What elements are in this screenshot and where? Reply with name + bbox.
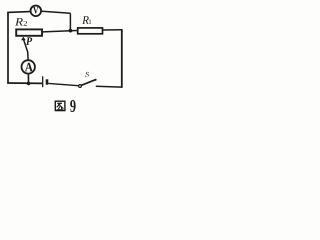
caption figure number 9 [70, 100, 75, 112]
label V in voltmeter [33, 7, 38, 14]
wire right vertical [121, 30, 123, 88]
wire rheostat right to R1 left [43, 31, 77, 32]
label S at switch [85, 72, 89, 77]
wire switch to right corner [96, 85, 122, 88]
wire bottom-left horizontal [7, 82, 42, 84]
label A in ammeter [25, 63, 33, 72]
wire R1 right stub [103, 29, 123, 31]
rheostat R2 box [16, 29, 42, 35]
switch pivot circle [79, 85, 82, 88]
slider wire P to ammeter [24, 39, 29, 59]
label R2 subscript 2 [24, 21, 27, 26]
wire down from top to node [69, 13, 71, 30]
caption hanzi TU (figure) drawn as strokes [55, 101, 65, 110]
battery long plate [42, 76, 44, 87]
ammeter A (meter circle) [22, 60, 35, 73]
wire left vertical [7, 12, 9, 83]
slider arrow head of rheostat [21, 37, 26, 41]
wire top-left horizontal [7, 11, 30, 14]
label P at slider [26, 37, 32, 44]
resistor R1 box [78, 28, 103, 34]
switch S lever [81, 80, 96, 86]
label R1 subscript 1 [89, 19, 91, 24]
node junction dot (ammeter to bottom wire) [27, 82, 31, 86]
voltmeter V (meter circle) [31, 6, 42, 17]
switch lever end dot [95, 79, 97, 81]
wire ammeter bottom stem [27, 74, 29, 83]
label R2 letter R [15, 18, 23, 25]
wire battery to switch [48, 83, 78, 85]
wire voltmeter right to corner [42, 11, 71, 13]
node junction dot (V branch to R2/R1 node) [69, 29, 73, 33]
label R1 letter R [82, 16, 89, 24]
battery short plate [46, 79, 49, 84]
